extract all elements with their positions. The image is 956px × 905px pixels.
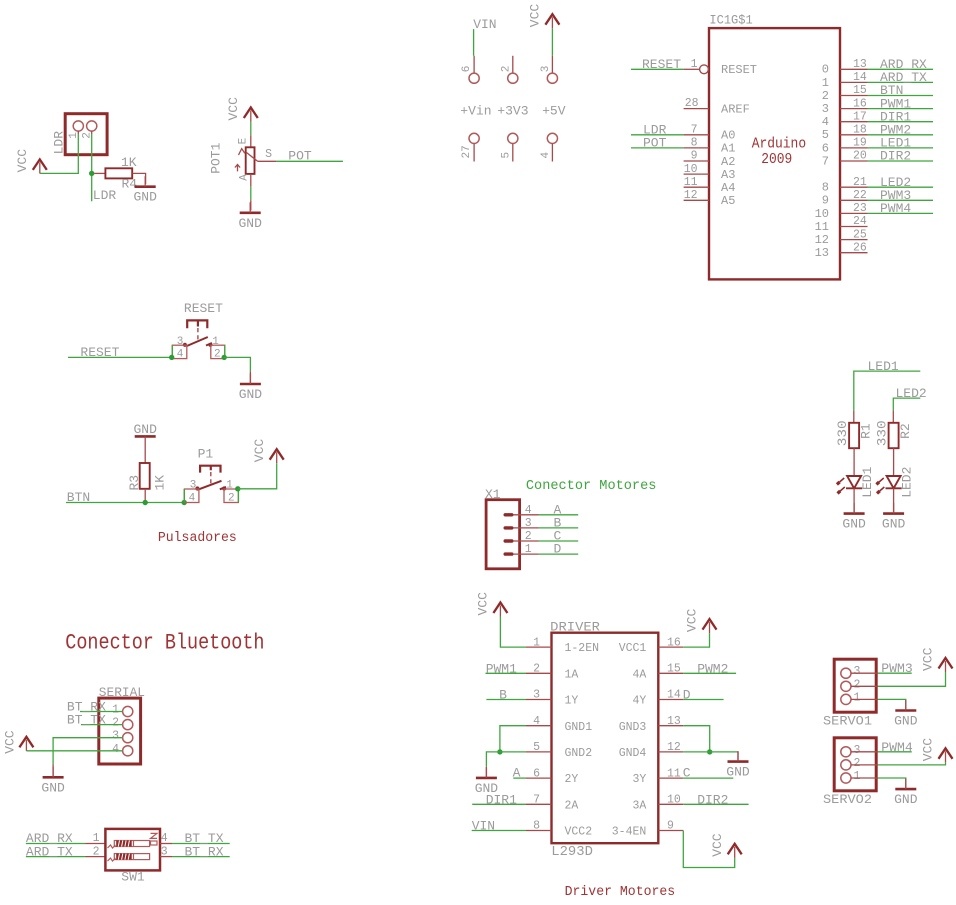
wire VIN to pin 6 bbox=[473, 29, 475, 56]
wire net A from X1 bbox=[539, 514, 579, 516]
svg-text:3: 3 bbox=[540, 66, 552, 73]
svg-text:1: 1 bbox=[212, 336, 219, 348]
svg-text:15: 15 bbox=[667, 663, 681, 676]
lead R1 to LED1 bbox=[853, 448, 855, 476]
X1 pad 1 bbox=[504, 552, 514, 555]
svg-text:GND: GND bbox=[726, 765, 750, 780]
svg-text:BTN: BTN bbox=[67, 490, 90, 505]
svg-text:2: 2 bbox=[854, 757, 861, 770]
svg-text:2: 2 bbox=[525, 530, 532, 543]
Arduino pin 22 lead bbox=[840, 199, 868, 201]
svg-text:19: 19 bbox=[853, 137, 867, 150]
svg-text:VCC: VCC bbox=[710, 833, 725, 857]
wire net PWM3 from SERVO1 pin 3 bbox=[878, 672, 912, 674]
SW1 knob divider row 1 bbox=[133, 841, 135, 847]
wire LDR pad2 down to node bbox=[91, 134, 93, 201]
Arduino pin 14 lead bbox=[840, 81, 868, 83]
POT1 adjust arrow bottom bbox=[235, 165, 240, 172]
wire net D from L293D pin 14 bbox=[683, 699, 723, 701]
svg-text:9: 9 bbox=[822, 194, 829, 208]
L293D pin 11 lead bbox=[658, 777, 683, 779]
pin 4 lead bbox=[551, 144, 553, 162]
svg-text:VCC2: VCC2 bbox=[565, 826, 593, 839]
GND symbol bbox=[43, 767, 64, 778]
svg-text:11: 11 bbox=[815, 220, 829, 234]
wire L293D pin 12 to node and GND bbox=[683, 751, 738, 753]
svg-text:DIR2: DIR2 bbox=[697, 792, 728, 807]
svg-text:13: 13 bbox=[853, 58, 867, 71]
wire L293D pin 4 to node bbox=[500, 726, 526, 752]
svg-text:16: 16 bbox=[853, 97, 867, 110]
RESET button pin1 contact mark bbox=[206, 343, 212, 346]
svg-text:LED1: LED1 bbox=[868, 359, 899, 374]
lead LED1 to GND bbox=[853, 488, 855, 513]
SERVO2 pin 3 lead bbox=[851, 751, 878, 753]
RESET button actuator bracket bbox=[187, 320, 207, 328]
resistor R2 bbox=[889, 423, 899, 448]
svg-text:PWM3: PWM3 bbox=[881, 661, 913, 676]
svg-text:A: A bbox=[513, 766, 521, 781]
svg-text:7: 7 bbox=[691, 124, 698, 137]
svg-text:21: 21 bbox=[853, 176, 867, 189]
svg-text:3: 3 bbox=[854, 744, 861, 757]
svg-text:14: 14 bbox=[667, 689, 681, 702]
svg-text:RESET: RESET bbox=[642, 57, 681, 72]
RESET button right contact square bbox=[211, 345, 225, 358]
L293D pin 3 lead bbox=[526, 699, 552, 701]
LED1 emission arrows bbox=[840, 478, 845, 491]
SW1 pin 2 lead bbox=[86, 856, 106, 858]
SERVO2 pin 2 lead bbox=[851, 764, 878, 766]
svg-text:VCC: VCC bbox=[528, 4, 543, 28]
svg-text:A: A bbox=[239, 174, 251, 181]
lead to GND bar left bbox=[485, 767, 487, 778]
svg-text:R2: R2 bbox=[898, 423, 913, 439]
VCC symbol bbox=[728, 844, 742, 858]
svg-text:D: D bbox=[683, 688, 691, 703]
svg-text:28: 28 bbox=[685, 97, 699, 110]
connector SERVO2 box bbox=[834, 738, 876, 791]
svg-text:PWM4: PWM4 bbox=[881, 740, 913, 755]
svg-text:3: 3 bbox=[525, 517, 532, 530]
svg-text:Conector Bluetooth: Conector Bluetooth bbox=[65, 631, 264, 656]
SERVO1 pad 2 bbox=[841, 681, 851, 691]
wire net LDR to Arduino pin 7 bbox=[631, 134, 684, 136]
wire net DIR1 from Arduino pin 17 bbox=[868, 121, 934, 123]
VCC symbol bbox=[244, 108, 258, 122]
svg-text:9: 9 bbox=[667, 820, 674, 833]
wire VCC to L293D pin 1 bbox=[500, 617, 526, 648]
VCC symbol bbox=[270, 449, 284, 463]
P1 pin1 contact mark bbox=[220, 487, 226, 489]
pin 2 lead bbox=[512, 56, 514, 73]
L293D pin 7 lead bbox=[526, 803, 552, 805]
Arduino pin 9 lead bbox=[684, 160, 709, 162]
lead R2 to LED2 bbox=[893, 448, 895, 476]
svg-text:DIR1: DIR1 bbox=[486, 792, 517, 807]
svg-text:16: 16 bbox=[667, 636, 681, 649]
wire SERIAL pin 4 to VCC bbox=[26, 750, 122, 752]
svg-text:VCC: VCC bbox=[685, 608, 700, 632]
svg-text:1: 1 bbox=[93, 832, 100, 845]
X1 pad 4 bbox=[504, 513, 514, 516]
svg-text:14: 14 bbox=[853, 71, 867, 84]
Arduino pin 12 lead bbox=[684, 199, 709, 201]
X1 pin 4 lead bbox=[514, 514, 539, 516]
wire SERVO1 pin 2 to VCC bbox=[878, 672, 946, 686]
RESET button actuator dashed link bbox=[197, 328, 199, 342]
svg-text:VCC: VCC bbox=[3, 730, 18, 754]
node GND3-GND4 right bbox=[707, 749, 712, 754]
P1 left contact square bbox=[184, 489, 199, 503]
svg-text:A3: A3 bbox=[721, 168, 735, 182]
resistor R4 bbox=[105, 168, 132, 178]
L293D pin 15 lead bbox=[658, 672, 683, 674]
svg-text:2Y: 2Y bbox=[565, 773, 579, 786]
svg-text:1K: 1K bbox=[153, 475, 168, 491]
svg-text:6: 6 bbox=[822, 141, 829, 155]
svg-text:LED1: LED1 bbox=[860, 466, 875, 497]
svg-text:IC1G$1: IC1G$1 bbox=[709, 13, 752, 28]
pin 2 pad bbox=[508, 73, 518, 83]
svg-text:A0: A0 bbox=[721, 129, 735, 143]
lead wiper S bbox=[258, 160, 277, 162]
svg-text:4: 4 bbox=[533, 715, 540, 728]
svg-text:27: 27 bbox=[461, 145, 473, 158]
SERVO1 pin 2 lead bbox=[851, 685, 878, 687]
connector X1 box bbox=[486, 500, 519, 569]
POT1 wiper arrow mark top bbox=[239, 149, 245, 155]
wire net LED2 bbox=[893, 398, 920, 411]
svg-text:+Vin: +Vin bbox=[460, 103, 491, 118]
svg-text:GND: GND bbox=[894, 714, 918, 729]
wire net RESET to button bbox=[68, 356, 172, 358]
lead to GND bar right bbox=[737, 752, 739, 762]
svg-text:0: 0 bbox=[822, 63, 829, 77]
SERVO2 pin 1 lead bbox=[851, 777, 878, 779]
svg-text:3: 3 bbox=[190, 480, 197, 492]
svg-text:VCC: VCC bbox=[476, 592, 491, 616]
svg-text:26: 26 bbox=[853, 241, 867, 254]
wire net VIN to L293D pin 8 bbox=[472, 830, 526, 832]
svg-text:2: 2 bbox=[501, 66, 513, 73]
Arduino pin 15 lead bbox=[840, 95, 868, 97]
VCC symbol bbox=[939, 658, 953, 672]
svg-text:GND3: GND3 bbox=[619, 721, 647, 734]
lead wire to GND bbox=[250, 200, 252, 210]
Arduino pin 10 lead bbox=[684, 173, 709, 175]
wire net DIR2 from L293D pin 10 bbox=[683, 803, 748, 805]
wire L293D pin 5 to node and GND bbox=[500, 751, 526, 753]
svg-text:2A: 2A bbox=[565, 799, 579, 812]
node LDR junction bbox=[89, 171, 94, 176]
svg-text:R3: R3 bbox=[127, 475, 142, 491]
svg-text:5: 5 bbox=[822, 128, 829, 142]
wire left contact edge bbox=[171, 345, 173, 357]
pin 27 pad bbox=[469, 133, 479, 143]
wire P1 left contact edge bbox=[183, 489, 185, 503]
Arduino 2009 module box bbox=[709, 28, 840, 279]
svg-text:LDR: LDR bbox=[51, 131, 66, 155]
svg-text:6: 6 bbox=[533, 767, 540, 780]
svg-text:GND: GND bbox=[133, 422, 157, 437]
VCC symbol bbox=[939, 748, 953, 762]
svg-text:PWM2: PWM2 bbox=[697, 661, 728, 676]
svg-text:POT: POT bbox=[288, 148, 312, 163]
SW1 pin 4 lead bbox=[160, 843, 172, 845]
svg-text:2: 2 bbox=[214, 349, 221, 361]
wire net BT_RX to SERIAL pin 1 bbox=[80, 711, 123, 713]
L293D pin 2 lead bbox=[526, 672, 552, 674]
L293D pin 5 lead bbox=[526, 751, 552, 753]
svg-text:4: 4 bbox=[177, 349, 184, 361]
wire L293D pin 16 to VCC bbox=[683, 633, 709, 647]
VCC symbol bbox=[19, 737, 33, 751]
SERIAL pad 1 bbox=[123, 706, 133, 716]
SW1 Z mark bbox=[151, 833, 158, 838]
svg-text:3: 3 bbox=[822, 102, 829, 116]
SW1 slider knob row 1 bbox=[116, 841, 132, 847]
node BTN at R3 bbox=[143, 500, 148, 505]
wire net ARD_RX to SW1 pin 1 bbox=[26, 843, 86, 845]
wire net B to L293D pin 3 bbox=[486, 699, 526, 701]
svg-text:PWM4: PWM4 bbox=[880, 201, 911, 216]
svg-text:4: 4 bbox=[822, 115, 829, 129]
svg-text:10: 10 bbox=[667, 794, 681, 807]
GND symbol bbox=[844, 503, 865, 513]
P1 pin 3 contact dot bbox=[195, 486, 199, 490]
P1 actuator dashed link bbox=[210, 472, 212, 486]
GND symbol bbox=[895, 779, 916, 790]
wire net PWM4 from SERVO2 pin 3 bbox=[878, 751, 912, 753]
GND symbol bbox=[883, 503, 904, 513]
lead node to R4 bbox=[94, 172, 105, 174]
svg-text:10: 10 bbox=[815, 207, 829, 221]
wire net BTN from Arduino pin 15 bbox=[868, 95, 934, 97]
svg-text:A2: A2 bbox=[721, 155, 735, 169]
svg-text:13: 13 bbox=[667, 715, 681, 728]
driver IC L293D box bbox=[552, 633, 659, 844]
wire net C from L293D pin 11 bbox=[683, 777, 733, 779]
wire P1 to VCC bbox=[238, 463, 277, 489]
L293D pin 1 lead bbox=[526, 646, 552, 648]
svg-text:18: 18 bbox=[853, 124, 867, 137]
lead LED2 to GND bbox=[893, 488, 895, 513]
svg-text:13: 13 bbox=[815, 246, 829, 260]
svg-text:4Y: 4Y bbox=[632, 695, 646, 708]
svg-text:LED2: LED2 bbox=[896, 386, 927, 401]
wire button to GND bbox=[224, 357, 250, 371]
svg-text:2: 2 bbox=[822, 89, 829, 103]
svg-text:GND: GND bbox=[133, 190, 157, 205]
svg-text:15: 15 bbox=[853, 84, 867, 97]
wire POT net bbox=[276, 160, 343, 162]
svg-text:LED2: LED2 bbox=[899, 467, 914, 498]
svg-text:3-4EN: 3-4EN bbox=[612, 826, 647, 839]
svg-text:VIN: VIN bbox=[472, 819, 495, 834]
svg-text:3: 3 bbox=[533, 689, 540, 702]
P1 right contact square bbox=[224, 489, 238, 503]
LED2 emission arrows bbox=[879, 478, 884, 491]
resistor R3 bbox=[140, 463, 150, 489]
X1 pin 2 lead bbox=[514, 540, 539, 542]
wire net LED1 from Arduino pin 19 bbox=[868, 147, 934, 149]
svg-text:RESET: RESET bbox=[721, 63, 757, 77]
Arduino pin 1 lead bbox=[684, 68, 700, 70]
svg-text:POT: POT bbox=[643, 136, 667, 151]
svg-text:9: 9 bbox=[691, 150, 698, 163]
wire right contact edge bbox=[224, 345, 226, 357]
GND symbol bbox=[135, 176, 156, 187]
SERIAL pad 2 bbox=[123, 720, 133, 730]
SERIAL pad 3 bbox=[123, 733, 133, 743]
LED LED1 bbox=[846, 476, 862, 488]
L293D pin 10 lead bbox=[658, 803, 683, 805]
svg-text:+3V3: +3V3 bbox=[497, 103, 528, 118]
P1 actuator bracket bbox=[200, 466, 220, 473]
svg-text:12: 12 bbox=[815, 233, 829, 247]
POT1 wiper diagonal bbox=[247, 153, 258, 162]
wire SERVO2 pin 1 to GND bbox=[878, 778, 906, 785]
svg-text:1: 1 bbox=[226, 480, 233, 492]
wire net A to L293D pin 6 bbox=[513, 777, 526, 779]
svg-text:DIR2: DIR2 bbox=[880, 149, 911, 164]
Arduino pin 7 lead bbox=[684, 134, 709, 136]
LED LED2 bbox=[886, 476, 902, 488]
svg-text:GND: GND bbox=[239, 387, 263, 402]
svg-text:12: 12 bbox=[684, 189, 698, 202]
VCC symbol bbox=[703, 619, 717, 633]
wire P1 right contact edge bbox=[237, 489, 239, 503]
svg-text:Driver Motores: Driver Motores bbox=[565, 885, 676, 900]
photocell connector LDR box bbox=[65, 114, 107, 155]
svg-text:VCC: VCC bbox=[921, 738, 936, 762]
svg-text:E: E bbox=[238, 137, 250, 144]
wire net PWM1 to L293D pin 2 bbox=[486, 672, 527, 674]
lead E to resistor bbox=[250, 135, 252, 147]
L293D pin 6 lead bbox=[526, 777, 552, 779]
SW1 pin 1 lead bbox=[86, 843, 106, 845]
svg-text:GND: GND bbox=[882, 517, 906, 532]
Arduino pin 8 lead bbox=[684, 147, 709, 149]
SW1 slider body row 1 bbox=[114, 841, 149, 847]
pin 27 lead bbox=[473, 144, 475, 162]
potentiometer POT1 body bbox=[246, 147, 255, 174]
svg-text:2: 2 bbox=[112, 717, 119, 730]
SERIAL pad 4 bbox=[123, 746, 133, 756]
pin 5 pad bbox=[508, 133, 518, 143]
lead POT1 A to wire bbox=[250, 174, 252, 187]
GND symbol bbox=[728, 751, 749, 762]
svg-text:17: 17 bbox=[853, 110, 867, 123]
P1 lever bbox=[198, 481, 221, 490]
svg-text:1K: 1K bbox=[121, 155, 137, 170]
pin 6 pad bbox=[469, 73, 479, 83]
SW1 pin 3 lead bbox=[160, 856, 172, 858]
L293D pin 16 lead bbox=[658, 646, 683, 648]
GND symbol bbox=[476, 767, 497, 778]
svg-text:1: 1 bbox=[525, 543, 532, 556]
RESET button pin 3 contact dot bbox=[183, 343, 187, 347]
X1 pin 3 lead bbox=[514, 527, 539, 529]
svg-text:330: 330 bbox=[875, 420, 890, 446]
svg-text:1: 1 bbox=[112, 704, 119, 717]
svg-text:3A: 3A bbox=[632, 799, 646, 812]
L293D pin 4 lead bbox=[526, 725, 552, 727]
connector SERIAL box bbox=[99, 698, 141, 764]
svg-text:7: 7 bbox=[822, 154, 829, 168]
resistor R1 bbox=[849, 423, 859, 448]
lead to GND bar SERVO1 bbox=[905, 706, 907, 711]
svg-text:ARD_TX: ARD_TX bbox=[26, 844, 73, 859]
svg-text:3Y: 3Y bbox=[632, 773, 646, 786]
SW1 slider body row 2 bbox=[114, 854, 149, 860]
svg-text:5: 5 bbox=[533, 741, 540, 754]
svg-text:GND1: GND1 bbox=[565, 721, 593, 734]
L293D pin 13 lead bbox=[658, 725, 683, 727]
svg-text:SERVO1: SERVO1 bbox=[823, 714, 872, 729]
wire net ARD_TX to SW1 pin 2 bbox=[26, 856, 86, 858]
wire net DIR1 to L293D pin 7 bbox=[472, 803, 526, 805]
RESET button left contact square bbox=[172, 345, 187, 358]
SW1 zigzag mark row 1 bbox=[108, 845, 116, 848]
svg-text:11: 11 bbox=[667, 767, 681, 780]
svg-text:L293D: L293D bbox=[551, 845, 593, 860]
P1 pin 1 contact dot bbox=[222, 486, 226, 490]
SERVO1 pin 1 lead bbox=[851, 698, 878, 700]
wire L293D pin 13 to node bbox=[683, 726, 709, 752]
svg-text:3: 3 bbox=[112, 730, 119, 743]
svg-text:VIN: VIN bbox=[473, 17, 496, 32]
svg-text:11: 11 bbox=[684, 176, 698, 189]
wire net PWM1 from Arduino pin 16 bbox=[868, 108, 934, 110]
svg-text:+5V: +5V bbox=[542, 103, 566, 118]
wire net BTN bbox=[66, 502, 184, 504]
svg-text:2: 2 bbox=[228, 492, 235, 504]
node BTN at P1 bbox=[182, 500, 187, 505]
pin 3 pad bbox=[547, 73, 557, 83]
GND symbol bbox=[240, 202, 261, 213]
lead to GND bar bbox=[249, 371, 251, 384]
svg-text:S: S bbox=[265, 148, 272, 161]
wire SERVO1 pin 1 to GND bbox=[878, 699, 906, 706]
svg-text:D: D bbox=[554, 542, 562, 557]
svg-text:1: 1 bbox=[854, 691, 861, 704]
svg-text:P1: P1 bbox=[198, 447, 214, 462]
node VCC at P1 pin 1 bbox=[235, 486, 240, 491]
svg-text:B: B bbox=[499, 688, 507, 703]
VCC symbol bbox=[545, 14, 559, 28]
GND symbol bbox=[240, 374, 261, 385]
svg-text:1: 1 bbox=[533, 636, 540, 649]
svg-text:SW1: SW1 bbox=[121, 870, 145, 885]
svg-text:GND: GND bbox=[842, 517, 866, 532]
svg-text:A1: A1 bbox=[721, 142, 735, 156]
wire net LED2 from Arduino pin 21 bbox=[868, 186, 934, 188]
wire LDR pad1 to VCC bbox=[40, 134, 79, 173]
svg-text:24: 24 bbox=[853, 215, 867, 228]
svg-text:RESET: RESET bbox=[80, 345, 119, 360]
Arduino pin 11 lead bbox=[684, 186, 709, 188]
wire VCC to POT1 E bbox=[250, 122, 252, 136]
svg-text:C: C bbox=[683, 766, 691, 781]
svg-text:4: 4 bbox=[112, 743, 119, 756]
wire net ARD_TX from Arduino pin 14 bbox=[868, 81, 934, 83]
svg-text:VCC: VCC bbox=[15, 149, 30, 173]
svg-text:VCC: VCC bbox=[226, 97, 241, 121]
svg-text:25: 25 bbox=[853, 228, 867, 241]
svg-text:VCC: VCC bbox=[921, 647, 936, 671]
